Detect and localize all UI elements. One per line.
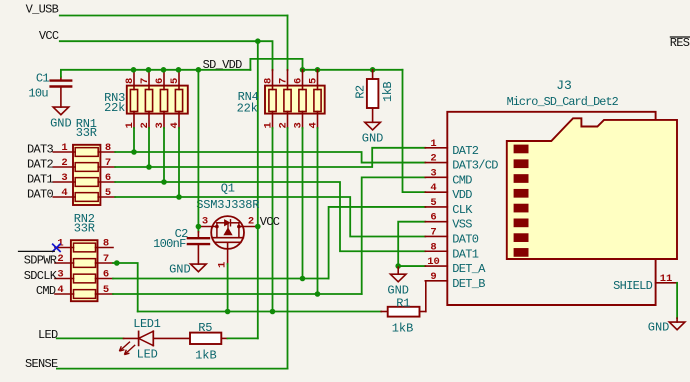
RN3 top pin 5: [178, 70, 180, 90]
wire Q1 drain down: [227, 264, 229, 312]
junction Q1 drain on bottom wire: [225, 309, 231, 315]
RN2 right pin 7: [96, 262, 114, 264]
RN2 left pin 4: [55, 293, 74, 295]
RN4 top pin 8: [272, 70, 274, 90]
svg-text:3: 3: [202, 216, 208, 228]
wire RN4 pin3 riser to SDCLK net: [302, 128, 304, 279]
svg-text:Micro_SD_Card_Det2: Micro_SD_Card_Det2: [507, 95, 619, 109]
resistor network RN3 body: [127, 86, 188, 114]
junction RN3/DAT2: [146, 164, 152, 170]
junction RN3/DAT1: [161, 179, 167, 185]
J3 pin 11 SHIELD: [656, 282, 678, 284]
capacitor C2: [188, 237, 209, 239]
svg-text:DAT3/CD: DAT3/CD: [452, 159, 498, 173]
ground for C1: [53, 107, 69, 115]
RN2 right pin 6: [96, 278, 114, 280]
RN4 bottom pin 1: [272, 112, 274, 129]
transistor Q1 SSM3J338R: [211, 216, 244, 249]
RN4 bottom pin 2: [287, 112, 289, 129]
RN2 element 4: [74, 290, 96, 299]
svg-text:1: 1: [430, 138, 436, 150]
svg-text:22k: 22k: [237, 101, 258, 115]
svg-text:VCC: VCC: [260, 215, 280, 229]
svg-text:GND: GND: [50, 117, 72, 131]
ground for DET_A/VSS: [397, 267, 399, 274]
junction SD_VDD at R2: [370, 67, 376, 73]
wire SDCLK up to CLK pin 5: [329, 207, 426, 279]
RN2 left pin 3: [55, 278, 74, 280]
resistor network RN1 body: [73, 145, 100, 205]
svg-text:DET_B: DET_B: [452, 277, 485, 291]
svg-text:1kB: 1kB: [392, 322, 414, 336]
RN1 right pin 6: [98, 181, 115, 183]
svg-text:6: 6: [292, 78, 304, 84]
svg-text:LED: LED: [137, 347, 158, 361]
Q1 drain stub: [227, 242, 229, 264]
svg-text:SDCLK: SDCLK: [24, 269, 58, 283]
wire RN4 pin4 riser to CMD net: [317, 128, 319, 294]
svg-text:RESET: RESET: [670, 36, 690, 50]
micro SD card shape: [507, 118, 677, 259]
wire VCC horizontal: [60, 40, 258, 42]
svg-text:SDPWR: SDPWR: [24, 254, 57, 268]
resistor R2: [367, 79, 379, 108]
svg-text:SSM3J338R: SSM3J338R: [196, 198, 259, 212]
junction Q1 source / VCC riser: [255, 224, 261, 230]
svg-text:6: 6: [105, 172, 111, 184]
junction VCC/Q1 branch: [255, 38, 261, 44]
RN2 element 3: [74, 274, 96, 283]
svg-text:8: 8: [262, 78, 274, 84]
wire CMD output right: [113, 293, 362, 295]
junction SD_VDD at RN4 pin 5: [315, 67, 321, 73]
svg-text:2: 2: [61, 157, 67, 169]
RN2 left pin 1: [55, 247, 74, 249]
wire DET_A pin 10 to ground: [398, 265, 425, 267]
svg-text:DET_A: DET_A: [452, 262, 486, 276]
svg-text:5: 5: [430, 197, 436, 209]
svg-text:3: 3: [430, 167, 436, 179]
svg-text:3: 3: [61, 172, 67, 184]
RN4 element 1: [269, 90, 276, 112]
wire SDCLK output right: [113, 278, 329, 280]
svg-text:4: 4: [430, 182, 436, 194]
svg-text:GND: GND: [387, 284, 409, 298]
svg-text:C1: C1: [36, 72, 50, 86]
RN1 right pin 5: [98, 196, 115, 198]
capacitor C1: [51, 79, 72, 81]
svg-text:GND: GND: [169, 263, 191, 277]
wire VSS pin 6 to ground: [398, 222, 425, 266]
svg-text:CLK: CLK: [452, 203, 473, 217]
micro SD card contact pads: [514, 145, 529, 154]
RN4 element 4: [314, 90, 321, 112]
RN2 element 1: [74, 243, 96, 252]
svg-text:R2: R2: [354, 85, 368, 99]
wire R5 to VCC riser: [227, 337, 257, 339]
wire DAT3 row to pin 2: [115, 152, 425, 163]
svg-text:LED1: LED1: [133, 317, 160, 331]
svg-text:DAT2: DAT2: [27, 157, 54, 171]
RN4 bottom pin 3: [302, 112, 304, 129]
J3 pin 10 DET_A: [425, 265, 447, 267]
svg-text:6: 6: [154, 78, 166, 84]
wire C1 to SD_VDD rail: [61, 70, 251, 77]
RN1 element 2: [75, 163, 98, 172]
svg-text:8: 8: [430, 241, 436, 253]
RN2 element 2: [74, 259, 96, 268]
wire RN3 pin 4 riser: [178, 128, 180, 197]
wire SD_VDD drop to VDD pin 4: [403, 70, 426, 192]
svg-text:7: 7: [139, 78, 151, 84]
svg-text:LED: LED: [38, 328, 58, 342]
J3 pin 2 DAT3/CD: [425, 162, 447, 164]
RN4 top pin 6: [302, 70, 304, 90]
svg-text:7: 7: [277, 78, 289, 84]
svg-text:GND: GND: [362, 132, 384, 146]
junction CMD/RN4 pin4: [315, 291, 321, 297]
RN1 right pin 8: [98, 151, 115, 153]
svg-text:9: 9: [430, 271, 436, 283]
svg-text:5: 5: [169, 78, 181, 84]
J3 pin 9 DET_B: [425, 280, 447, 282]
Q1 gate pin: [198, 226, 217, 228]
svg-text:DAT1: DAT1: [27, 172, 54, 186]
svg-text:3: 3: [57, 269, 63, 281]
no-connect X on RN2 pin 1: [52, 244, 61, 252]
svg-text:R1: R1: [396, 297, 410, 311]
resistor R1: [381, 311, 388, 313]
svg-text:DAT0: DAT0: [27, 187, 54, 201]
RN3 top pin 7: [148, 70, 150, 90]
svg-text:DAT0: DAT0: [452, 232, 479, 246]
wire SHIELD to ground: [676, 283, 678, 318]
wire SDPWR output down: [113, 263, 138, 312]
svg-text:100nF: 100nF: [153, 237, 186, 251]
resistor R5: [190, 333, 221, 344]
J3 pin 1 DAT2: [425, 147, 447, 149]
RN1 element 1: [75, 148, 98, 157]
RN2 left pin 2: [55, 262, 74, 264]
junction ground node: [395, 263, 401, 269]
ground for SHIELD: [676, 318, 678, 322]
wire SD_VDD jog over RN4: [250, 59, 302, 70]
svg-text:33R: 33R: [76, 126, 97, 140]
junction RN3 pin 7 on SD_VDD: [146, 67, 152, 73]
RN4 element 2: [284, 90, 291, 112]
RN1 element 3: [75, 178, 98, 187]
junction RN3 pin 6 on SD_VDD: [161, 67, 167, 73]
svg-text:5: 5: [103, 284, 109, 296]
wire V_USB riser to RN4 pin 7: [287, 16, 289, 71]
RN4 bottom pin 4: [317, 112, 319, 129]
wire DAT1 row to pin 8: [115, 182, 425, 251]
svg-text:7: 7: [105, 157, 111, 169]
junction Q1 gate: [196, 224, 202, 230]
junction RN4 pin1 riser on bottom wire: [270, 309, 276, 315]
svg-text:7: 7: [430, 226, 436, 238]
svg-text:2: 2: [248, 216, 254, 228]
junction SD_VDD at RN4 pin 6: [300, 67, 306, 73]
RN3 element 2: [145, 90, 152, 112]
ground for R2: [365, 122, 381, 130]
svg-text:33R: 33R: [74, 222, 95, 236]
svg-text:SENSE: SENSE: [25, 357, 58, 371]
Q1 source pin: [239, 226, 258, 228]
svg-text:1kB: 1kB: [381, 82, 395, 102]
wire bottom DET_B net: [138, 311, 382, 313]
svg-text:2: 2: [57, 253, 63, 265]
J3 pin 8 DAT1: [425, 250, 447, 252]
junction RN3 pin 5 on SD_VDD: [176, 67, 182, 73]
RN3 bottom pin 4: [178, 112, 180, 129]
svg-text:VSS: VSS: [452, 218, 472, 232]
svg-text:DAT1: DAT1: [452, 247, 479, 261]
svg-text:DAT3: DAT3: [27, 142, 54, 156]
RN3 top pin 6: [163, 70, 165, 90]
junction SDPWR output: [114, 260, 120, 266]
svg-text:8: 8: [124, 78, 136, 84]
svg-text:2: 2: [430, 153, 436, 165]
RN2 right pin 5: [96, 293, 114, 295]
RN4 top pin 5: [317, 70, 319, 90]
svg-text:6: 6: [103, 269, 109, 281]
svg-text:1: 1: [61, 142, 67, 154]
wire V_USB horizontal: [60, 15, 288, 17]
svg-text:1kB: 1kB: [195, 348, 217, 362]
wire DAT0 row to pin 7: [115, 197, 425, 236]
svg-text:5: 5: [105, 187, 111, 199]
resistor network RN2 body: [71, 240, 98, 301]
wire RN4 pin2 riser to SENSE net: [287, 128, 289, 369]
junction RN3 pin 8 on SD_VDD: [131, 67, 137, 73]
wire LED label to LED1: [57, 337, 124, 339]
svg-text:10: 10: [427, 256, 440, 268]
junction RN3/DAT3: [131, 149, 137, 155]
svg-text:VCC: VCC: [39, 29, 59, 43]
wire VCC branch to RN4 pin 8: [258, 41, 273, 70]
RN3 bottom pin 3: [163, 112, 165, 129]
RN1 left pin 2: [53, 166, 75, 168]
RN1 left pin 4: [53, 196, 75, 198]
diode LED1: [124, 337, 139, 339]
svg-text:V_USB: V_USB: [26, 3, 59, 17]
junction SDCLK/RN4 pin3: [300, 276, 306, 282]
svg-text:J3: J3: [556, 78, 572, 93]
svg-text:8: 8: [103, 238, 109, 250]
RN1 element 4: [75, 193, 98, 202]
RN3 bottom pin 1: [133, 112, 135, 129]
svg-text:SD_VDD: SD_VDD: [203, 58, 243, 72]
svg-text:22k: 22k: [104, 101, 125, 115]
J3 pin 6 VSS: [425, 221, 447, 223]
svg-text:DAT2: DAT2: [452, 144, 479, 158]
connector J3 outline box: [447, 112, 655, 305]
J3 pin 3 CMD: [425, 176, 447, 178]
RN4 element 3: [299, 90, 306, 112]
wire Q1 gate riser: [197, 70, 199, 227]
ground for C2: [191, 264, 207, 272]
RN3 element 1: [130, 90, 137, 112]
wire VCC riser to Q1 source and R5: [257, 41, 259, 338]
svg-text:VDD: VDD: [452, 188, 472, 202]
RN2 right pin 8: [96, 247, 114, 249]
svg-text:5: 5: [307, 78, 319, 84]
wire RN3 pin 1 riser: [133, 128, 135, 152]
svg-text:7: 7: [103, 253, 109, 265]
svg-text:GND: GND: [648, 321, 670, 335]
J3 pin 5 CLK: [425, 206, 447, 208]
wire R1 to pin 9 DET_B: [425, 281, 427, 312]
wire RN4 pin1 riser to DET_B net: [272, 128, 274, 312]
svg-text:4: 4: [57, 284, 63, 296]
svg-text:8: 8: [105, 142, 111, 154]
RN3 top pin 8: [133, 70, 135, 90]
RN1 left pin 3: [53, 181, 75, 183]
wire SD_VDD rail right: [303, 69, 403, 71]
svg-text:10u: 10u: [28, 86, 48, 100]
svg-text:1: 1: [217, 262, 229, 268]
svg-text:6: 6: [430, 212, 436, 224]
junction SD_VDD at Q1 gate riser: [196, 67, 202, 73]
svg-text:4: 4: [61, 187, 67, 199]
svg-text:SHIELD: SHIELD: [613, 279, 653, 293]
J3 pin 7 DAT0: [425, 235, 447, 237]
wire SENSE: [57, 368, 288, 370]
J3 pin 4 VDD: [425, 191, 447, 193]
resistor network RN4 body: [265, 86, 325, 114]
svg-text:Q1: Q1: [221, 182, 235, 196]
svg-text:R5: R5: [198, 321, 212, 335]
wire DAT2 row to pin 1: [115, 148, 425, 167]
wire RN3 pin 3 riser: [163, 128, 165, 182]
RN3 element 4: [175, 90, 182, 112]
RN4 top pin 7: [287, 70, 289, 90]
svg-text:CMD: CMD: [36, 284, 56, 298]
svg-text:11: 11: [660, 273, 673, 285]
wire CMD up to pin 3: [362, 177, 426, 294]
RN1 right pin 7: [98, 166, 115, 168]
junction RN3/DAT0: [176, 194, 182, 200]
RN1 left pin 1: [53, 151, 75, 153]
LED1 emission arrows: [119, 342, 130, 352]
RN3 bottom pin 2: [148, 112, 150, 129]
RN3 element 3: [160, 90, 167, 112]
svg-text:CMD: CMD: [452, 173, 472, 187]
wire RN3 pin 2 riser: [148, 128, 150, 167]
